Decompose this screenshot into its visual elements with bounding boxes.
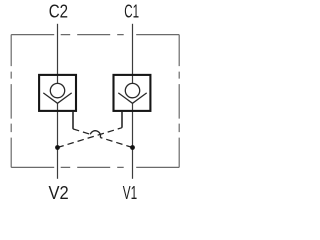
check valve CV1 seat bbox=[118, 93, 146, 103]
enclosure boundary top edge bbox=[11, 34, 179, 36]
check valve CV1 poppet ball bbox=[125, 83, 139, 97]
pilot line stub from CV2 bbox=[72, 112, 74, 129]
wire: C2 port line bbox=[57, 24, 59, 84]
junction node on V1 line bbox=[130, 145, 135, 150]
pilot line hop over crossing bbox=[90, 131, 100, 138]
check valve CV1 body bbox=[114, 75, 151, 111]
svg-text:V2: V2 bbox=[49, 183, 69, 203]
pilot line CV2 to node V1 (dashed, with hop) bbox=[73, 129, 90, 134]
enclosure boundary left edge bbox=[10, 35, 12, 168]
wire: V1 port line bbox=[132, 103, 134, 179]
check valve CV2 seat bbox=[43, 93, 71, 103]
enclosure boundary right edge bbox=[178, 35, 180, 168]
pilot line stub from CV1 bbox=[121, 112, 123, 128]
enclosure boundary bottom edge bbox=[11, 166, 179, 168]
svg-text:C1: C1 bbox=[124, 2, 139, 22]
svg-text:V1: V1 bbox=[123, 183, 137, 203]
check valve CV2 poppet ball bbox=[50, 83, 64, 97]
pilot line CV2 to node V1 continued (dashed) bbox=[100, 138, 132, 148]
wire: C1 port line bbox=[132, 24, 134, 84]
svg-text:C2: C2 bbox=[49, 2, 68, 22]
check valve CV2 body bbox=[39, 75, 76, 111]
junction node on V2 line bbox=[55, 145, 60, 150]
wire: V2 port line bbox=[57, 103, 59, 179]
pilot line CV1 to node V2 (dashed) bbox=[58, 128, 123, 148]
